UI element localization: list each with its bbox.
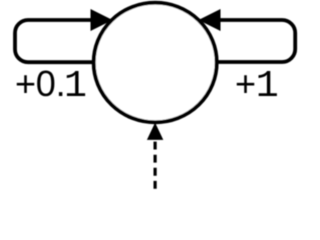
right self-loop wire	[216, 20, 295, 62]
left self-loop wire	[15, 20, 95, 62]
dashed-arrow head	[147, 123, 163, 140]
svg-text:1: 1	[64, 64, 87, 108]
svg-text:0: 0	[36, 63, 56, 104]
label +1	[235, 63, 279, 108]
state circle S	[94, 3, 217, 123]
label +0.1	[15, 63, 87, 108]
svg-text:1: 1	[256, 64, 279, 108]
right arrowhead	[199, 9, 221, 31]
svg-text:+: +	[235, 63, 256, 104]
left arrowhead	[91, 9, 113, 31]
svg-text:+: +	[15, 63, 36, 104]
dashed input wire	[154, 142, 157, 189]
